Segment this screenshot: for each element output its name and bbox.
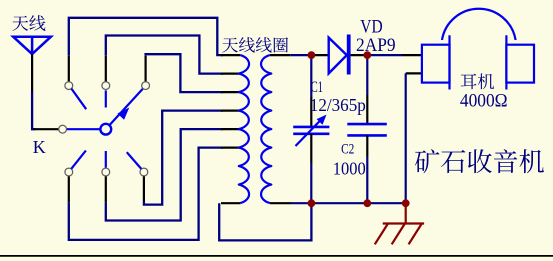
switch bottom contact pins <box>69 176 144 203</box>
wire diode to headphone <box>367 54 402 56</box>
switch contact circles <box>59 82 150 176</box>
switch contact stubs <box>71 89 141 169</box>
C1 bottom pin <box>310 134 312 163</box>
wire contact3 to coil tap3 <box>146 54 223 92</box>
svg-text:4000Ω: 4000Ω <box>460 92 508 112</box>
wire C1 to bottom bus <box>310 163 312 203</box>
coil tap pin 2 <box>221 72 241 74</box>
switch pivot <box>100 124 111 135</box>
ground symbol <box>375 203 424 244</box>
C1 variable arrow <box>296 115 327 146</box>
secondary coil L2 <box>261 55 271 203</box>
svg-text:2AP9: 2AP9 <box>356 35 396 56</box>
coil bottom-right pin <box>270 202 291 204</box>
svg-text:1000: 1000 <box>333 158 366 178</box>
svg-text:12/365p: 12/365p <box>310 95 366 115</box>
wire contact5 to coil tap5 <box>106 129 223 220</box>
diode VD <box>329 35 349 75</box>
headphone top pin <box>402 54 422 56</box>
C2 top pin <box>366 95 368 124</box>
title 矿石收音机 <box>415 149 544 173</box>
coil tap pin 5 <box>221 128 241 130</box>
junction node bottom C1 <box>308 199 316 207</box>
svg-text:C1: C1 <box>311 79 323 96</box>
svg-text:K: K <box>33 137 46 157</box>
wire contact2 to coil tap2 <box>106 36 223 74</box>
wire node to C1 <box>310 55 312 97</box>
wire contact6 to coil tap4 <box>144 111 223 205</box>
wire coil bottoms loop <box>219 203 311 240</box>
coil tap pin 6 <box>221 147 241 149</box>
diode left pin <box>311 54 328 56</box>
capacitor C1 plates <box>293 127 329 134</box>
coil tap pin 1 <box>221 54 241 56</box>
antenna label 天线 <box>12 15 45 31</box>
switch K left pin <box>34 128 58 130</box>
coil bottom-left pin <box>221 202 240 204</box>
wire node to C2 <box>366 55 368 95</box>
wire antenna to switch <box>32 92 35 130</box>
switch wiper arrow <box>110 89 143 125</box>
coil top-right pin <box>270 54 291 56</box>
antenna pin <box>31 54 33 92</box>
C1 top pin <box>310 97 312 127</box>
wire C2 to bottom bus <box>366 157 368 204</box>
junction node bottom C2 <box>363 199 371 207</box>
coil tap pin 3 <box>221 91 241 93</box>
primary coil L1 <box>239 55 249 203</box>
headphone BF <box>422 9 534 90</box>
junction node top C2 <box>363 51 371 59</box>
wire contact1 to coil tap1 <box>69 18 223 56</box>
headphone bottom pin <box>406 72 422 74</box>
switch top contact pins <box>69 56 146 82</box>
wire contact4 to coil tap6 <box>69 148 223 240</box>
coil tap pin 4 <box>221 109 241 111</box>
diode right pin <box>351 54 368 56</box>
wire left contact to pivot <box>67 128 101 130</box>
sheet border bottom <box>0 255 553 257</box>
capacitor C2 plates <box>347 124 387 135</box>
antenna symbol <box>13 37 51 54</box>
junction node bottom ground <box>402 199 410 207</box>
wire coil to C1 node <box>290 54 311 56</box>
coil label 天线线圈 <box>222 37 288 52</box>
headphone label 耳机 <box>461 73 494 89</box>
C2 bottom pin <box>366 135 368 156</box>
junction node top C1 <box>308 51 316 59</box>
svg-text:C2: C2 <box>341 141 354 157</box>
wire headphone return <box>405 73 407 203</box>
bottom bus wire <box>291 202 406 204</box>
